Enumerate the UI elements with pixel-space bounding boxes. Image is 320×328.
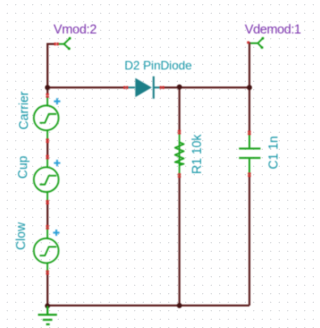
wire R1 top branch bbox=[178, 88, 180, 132]
pin dots Carrier top bbox=[46, 93, 49, 97]
wire left rail junction to Carrier bbox=[47, 88, 49, 96]
wire R1 bottom to ground rail bbox=[178, 175, 180, 306]
pin dots C1 bottom bbox=[248, 173, 251, 178]
wire Carrier to Cup bbox=[47, 141, 49, 158]
svg-text:Vmod:2: Vmod:2 bbox=[54, 22, 97, 37]
pin dots R1 bottom bbox=[178, 173, 181, 178]
junction node at Vdemod/C1 top bbox=[247, 85, 252, 90]
pin dots Vmod tie bbox=[54, 43, 59, 46]
junction node at R1 top bbox=[177, 84, 182, 89]
svg-text:Clow: Clow bbox=[14, 221, 28, 250]
wire Vdemod vertical bbox=[248, 42, 250, 131]
wire C1 bottom to ground rail bbox=[248, 175, 250, 306]
pin dots Clow bottom bbox=[46, 270, 49, 275]
wire Clow to ground bbox=[47, 272, 49, 306]
svg-text:R1 10k: R1 10k bbox=[190, 134, 204, 174]
diode D2 PinDiode bbox=[125, 76, 162, 98]
voltage source Cup bbox=[34, 158, 61, 202]
capacitor C1 bbox=[239, 131, 261, 176]
svg-text:Cup: Cup bbox=[16, 156, 30, 179]
pin dot Vdemod tie bbox=[247, 41, 250, 44]
junction node at R1 bottom bbox=[177, 303, 182, 308]
svg-text:D2 PinDiode: D2 PinDiode bbox=[125, 59, 193, 73]
ground bbox=[38, 306, 57, 324]
svg-text:Vdemod:1: Vdemod:1 bbox=[245, 22, 301, 37]
node tie symbol at Vdemod bbox=[251, 39, 263, 47]
wire top horizontal right of diode D2 bbox=[162, 87, 249, 89]
wire Vmod stub (corner) bbox=[48, 44, 57, 88]
wire top horizontal left of diode D2 bbox=[48, 87, 125, 89]
svg-text:Carrier: Carrier bbox=[17, 91, 31, 129]
voltage source Clow bbox=[34, 227, 60, 272]
junction node at Vmod branch bbox=[45, 85, 50, 90]
voltage source Carrier bbox=[34, 96, 61, 140]
pin dots R1 top bbox=[178, 130, 181, 135]
pin dots Cup top bbox=[46, 155, 49, 160]
pin dots Clow top bbox=[46, 225, 49, 230]
node tie symbol at Vmod bbox=[59, 39, 70, 48]
pin dots diode left bbox=[123, 86, 128, 89]
pin dots C1 top bbox=[248, 131, 251, 136]
resistor R1 bbox=[175, 131, 184, 177]
pin dots Carrier bottom bbox=[46, 139, 49, 144]
junction node at ground bbox=[45, 303, 50, 308]
wire Cup to Clow bbox=[47, 202, 49, 228]
pin dots Cup bottom bbox=[46, 200, 49, 205]
pin dots diode right bbox=[160, 86, 165, 89]
wire bottom horizontal rail bbox=[48, 305, 250, 307]
svg-text:C1 1n: C1 1n bbox=[267, 136, 281, 169]
